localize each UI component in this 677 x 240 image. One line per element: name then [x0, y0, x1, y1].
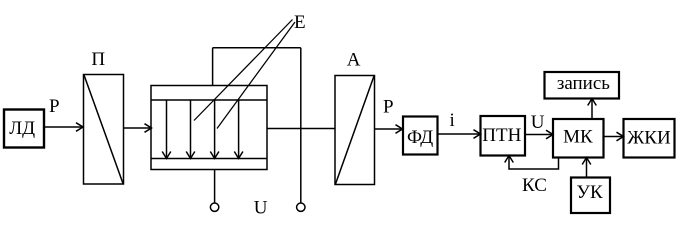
arrowhead into ЖКИ	[617, 132, 624, 141]
field arrow 2	[190, 100, 192, 158]
converter box ПТН	[481, 116, 526, 156]
arrowhead into cell	[145, 124, 152, 133]
svg-text:А: А	[347, 50, 361, 71]
terminal circle left	[210, 203, 218, 211]
svg-text:МК: МК	[563, 127, 593, 148]
pointer line E to arrow 2	[194, 20, 293, 121]
cell bottom electrode line	[151, 158, 267, 160]
cell top electrode line	[151, 99, 267, 101]
wire ПТН to МК	[525, 134, 553, 136]
photodetector box ФД	[403, 117, 438, 155]
field arrow 1	[166, 100, 168, 158]
svg-text:ФД: ФД	[407, 127, 433, 148]
arrowhead into МК	[546, 130, 553, 139]
analyzer diagonal	[336, 76, 375, 184]
field arrow 3	[214, 100, 216, 158]
svg-text:УК: УК	[577, 182, 603, 203]
microcontroller box МК	[553, 119, 604, 158]
wire УК to МК	[586, 158, 588, 178]
wire cell to А	[267, 128, 335, 130]
svg-text:ЛД: ЛД	[9, 118, 35, 139]
svg-text:U: U	[254, 198, 268, 219]
right drop wire	[300, 48, 302, 203]
arrowhead into П	[76, 123, 83, 132]
field arrow 4	[238, 100, 240, 158]
polarizer box П	[84, 75, 124, 185]
wire ФД to ПТН	[438, 133, 481, 135]
feedback wire КС from МК to ПТН	[509, 156, 559, 169]
svg-text:i: i	[450, 110, 455, 131]
bottom electrode stem	[214, 170, 216, 204]
svg-text:Р: Р	[383, 97, 394, 118]
svg-text:КС: КС	[522, 175, 547, 196]
laser diode box ЛД	[4, 110, 44, 148]
wire П to cell	[124, 127, 152, 129]
wire МК to запись	[591, 99, 593, 119]
pointer line E to arrow 3	[217, 22, 295, 129]
svg-text:ПТН: ПТН	[482, 125, 521, 146]
wire А to ФД	[375, 128, 402, 130]
arrowhead into МК bottom	[582, 158, 591, 165]
analyzer box А	[335, 76, 375, 185]
electro-optic cell outer	[151, 86, 267, 170]
svg-text:П: П	[91, 49, 105, 70]
arrowhead into ПТН bottom	[505, 156, 514, 163]
svg-text:U: U	[531, 112, 545, 133]
polarizer diagonal	[84, 75, 123, 184]
top wire horizontal	[213, 47, 301, 49]
arrowhead into ФД	[396, 125, 403, 134]
svg-text:запись: запись	[557, 73, 610, 94]
svg-text:Е: Е	[294, 12, 306, 33]
wire ЛД to П	[44, 126, 83, 128]
arrowhead into запись	[588, 99, 597, 106]
terminal circle right	[297, 203, 305, 211]
display box ЖКИ	[624, 119, 675, 158]
control box УК	[571, 178, 610, 214]
arrowhead into ПТН	[474, 130, 481, 139]
svg-text:Р: Р	[49, 96, 60, 117]
wire МК to ЖКИ	[604, 136, 624, 138]
svg-text:ЖКИ: ЖКИ	[627, 127, 671, 148]
record box запись	[545, 72, 620, 99]
top electrode stem	[212, 48, 214, 86]
